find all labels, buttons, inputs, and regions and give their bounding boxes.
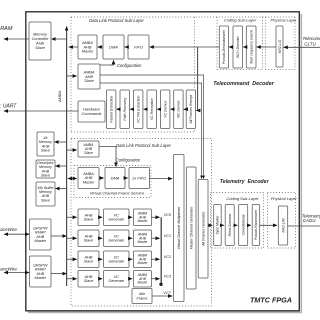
svg-text:FIFO: FIFO	[134, 44, 143, 49]
svg-text:Slave: Slave	[84, 260, 94, 264]
svg-text:Virtual Channel Frame Service: Virtual Channel Frame Service	[90, 191, 145, 196]
svg-text:Master Channel Generator: Master Channel Generator	[189, 206, 193, 249]
svg-text:Slave: Slave	[41, 198, 50, 202]
svg-text:All Frames Generator: All Frames Generator	[201, 211, 205, 247]
svg-text:VC0: VC0	[164, 213, 172, 217]
svg-text:BCH Decoder: BCH Decoder	[236, 35, 240, 57]
svg-text:Sync Marker: Sync Marker	[216, 215, 220, 235]
svg-text:Slave: Slave	[84, 279, 94, 283]
svg-text:Telecommand Decoder: Telecommand Decoder	[213, 81, 275, 87]
svg-text:All Frames Recept: All Frames Recept	[189, 94, 193, 125]
svg-text:CLTU: CLTU	[304, 41, 316, 46]
svg-text:Slave: Slave	[35, 45, 46, 50]
svg-text:Slave: Slave	[84, 239, 94, 243]
svg-text:Slave: Slave	[84, 151, 93, 155]
svg-text:Generate: Generate	[108, 279, 124, 283]
svg-text:RAM: RAM	[0, 26, 13, 32]
svg-text:Coding Sub-Layer: Coding Sub-Layer	[226, 196, 259, 201]
svg-text:VC Reception: VC Reception	[150, 98, 154, 120]
svg-text:Frame: Frame	[137, 296, 148, 300]
svg-text:Master: Master	[82, 50, 94, 54]
svg-text:NRZ-L/M: NRZ-L/M	[281, 218, 285, 232]
svg-text:VC1: VC1	[164, 234, 171, 238]
svg-text:Generate: Generate	[108, 260, 124, 264]
svg-text:MC Demux: MC Demux	[177, 100, 181, 118]
svg-text:Configuration: Configuration	[117, 63, 142, 68]
svg-text:Generate: Generate	[108, 218, 124, 222]
svg-text:DMA: DMA	[111, 175, 120, 180]
svg-text:VC7: VC7	[163, 291, 171, 295]
svg-text:AMBA: AMBA	[57, 91, 62, 104]
svg-text:Commands: Commands	[82, 111, 102, 116]
svg-text:Telecommand: Telecommand	[303, 36, 320, 41]
svg-text:Physical Layer: Physical Layer	[270, 18, 297, 23]
svg-text:CADU: CADU	[303, 218, 317, 223]
svg-text:Packet Extraction: Packet Extraction	[109, 96, 113, 123]
svg-text:Coding Sub-Layer: Coding Sub-Layer	[224, 18, 257, 23]
svg-text:Convolutional: Convolutional	[241, 214, 245, 235]
svg-text:VC3: VC3	[164, 274, 172, 278]
svg-text:Master: Master	[137, 219, 148, 223]
svg-text:Master: Master	[137, 281, 148, 285]
svg-text:2x FIFO: 2x FIFO	[131, 175, 146, 180]
svg-text:Data Link Protocol Sub-Layer: Data Link Protocol Sub-Layer	[89, 18, 144, 23]
svg-text:Slave: Slave	[84, 79, 94, 83]
svg-text:Generate: Generate	[108, 239, 124, 243]
svg-text:Configuration: Configuration	[116, 158, 141, 163]
svg-text:Slave: Slave	[84, 218, 94, 222]
svg-text:Start sequence search: Start sequence search	[249, 30, 253, 64]
svg-text:Physical Layer: Physical Layer	[271, 196, 298, 201]
svg-text:Path Recovery: Path Recovery	[123, 98, 127, 121]
svg-text:Data Link Protocol Sub-Layer: Data Link Protocol Sub-Layer	[116, 143, 171, 148]
svg-text:Master: Master	[34, 239, 46, 243]
svg-text:SpaceWire: SpaceWire	[0, 227, 17, 232]
svg-text:Master: Master	[137, 240, 148, 244]
svg-text:Master: Master	[34, 276, 46, 280]
svg-text:SpaceWire: SpaceWire	[0, 267, 17, 272]
svg-text:Slave: Slave	[41, 173, 50, 177]
svg-text:NRZ-L/S: NRZ-L/S	[278, 39, 282, 53]
svg-text:TMTC FPGA: TMTC FPGA	[250, 295, 292, 304]
svg-text:DMA: DMA	[109, 44, 118, 49]
svg-text:Slave: Slave	[41, 148, 50, 152]
svg-text:Virtual Channel Multiplexer: Virtual Channel Multiplexer	[177, 206, 181, 250]
svg-text:Telemetry Encoder: Telemetry Encoder	[220, 179, 270, 185]
svg-text:VC Pkt Extraction: VC Pkt Extraction	[136, 95, 140, 122]
svg-text:Pseudo-Randomizer: Pseudo-Randomizer	[254, 209, 258, 240]
svg-text:Master: Master	[83, 180, 95, 184]
svg-text:: UART: : UART	[0, 103, 17, 109]
svg-text:VC Demux: VC Demux	[163, 101, 167, 118]
svg-text:Pseudo-Derandomizer: Pseudo-Derandomizer	[222, 29, 226, 64]
svg-text:Reed-Solomon: Reed-Solomon	[228, 214, 232, 237]
svg-text:Master: Master	[137, 261, 148, 265]
svg-text:VC2: VC2	[164, 255, 172, 259]
